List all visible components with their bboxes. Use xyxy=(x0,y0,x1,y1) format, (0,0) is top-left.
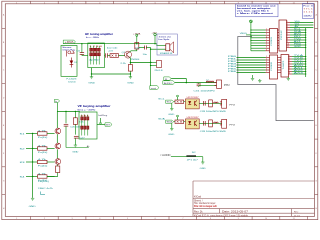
svg-text:PB6: PB6 xyxy=(228,71,236,73)
frame zone ticks left edge xyxy=(2,28,6,194)
svg-text:Fco: 3: Fco: 3 xyxy=(303,6,312,8)
resistor R SCL xyxy=(175,100,184,103)
svg-text:U2 PC817: U2 PC817 xyxy=(187,97,200,99)
transistor Q1 xyxy=(125,51,132,58)
capacitor C26 xyxy=(64,123,69,125)
svg-text:U3 PC817: U3 PC817 xyxy=(187,117,200,119)
ground GND6 under CONN1 rail xyxy=(252,75,254,78)
svg-text:2N3904: 2N3904 xyxy=(131,59,140,61)
svg-text:PIC12F: PIC12F xyxy=(281,29,283,40)
svg-text:fin = ~1MHz: fin = ~1MHz xyxy=(86,37,99,39)
PHJ1 pins xyxy=(215,82,217,84)
transistor Q2 xyxy=(55,128,61,134)
svg-text:GND: GND xyxy=(200,168,207,170)
svg-text:GND: GND xyxy=(168,114,175,116)
frame zone letters left xyxy=(3,13,5,210)
junction ground wire left xyxy=(91,73,92,74)
frame zone ticks top edge xyxy=(31,1,308,4)
svg-text:PHJ-S: PHJ-S xyxy=(155,70,164,72)
svg-text:Id: 1/1: Id: 1/1 xyxy=(294,215,301,217)
inductor SCL out xyxy=(214,102,219,103)
U4 left pin stubs xyxy=(278,58,282,73)
wire base line FL1 to C23 xyxy=(103,55,105,57)
resistor K2 xyxy=(38,147,48,150)
wire C24 to output xyxy=(146,47,150,49)
svg-text:Pu(1k): Pu(1k) xyxy=(38,137,48,139)
label arrow top left xyxy=(54,99,59,102)
IC U4 box xyxy=(281,55,289,78)
connector PHJ SDA xyxy=(222,119,227,128)
connector PHJ1 box xyxy=(217,80,222,88)
wire jumper row xyxy=(171,156,203,158)
svg-text:SPEAKER 8R: SPEAKER 8R xyxy=(160,52,173,55)
title block outline xyxy=(193,181,315,216)
inductor L2 xyxy=(206,81,214,83)
FL2 wire out xyxy=(97,124,105,126)
svg-text:KiCad E.D.A. eeschema (2013-m: KiCad E.D.A. eeschema (2013-mar-13)-stab… xyxy=(194,214,249,217)
junction ground wire right xyxy=(130,73,131,74)
capacitor SCL out xyxy=(202,101,204,106)
wire FL1 bottom to ground rail xyxy=(91,68,93,74)
+5V stem xyxy=(250,23,252,51)
svg-text:4p filter: 4p filter xyxy=(89,58,101,61)
svg-text:HF tuning amplifier: HF tuning amplifier xyxy=(85,32,114,36)
resistor R14 vertical xyxy=(56,166,60,173)
resistor R4 collector xyxy=(135,43,139,50)
svg-text:74HC1: 74HC1 xyxy=(283,59,285,69)
wire branch cap C26 xyxy=(65,112,67,124)
ground GND1 xyxy=(91,74,93,77)
frame zone numbers top xyxy=(16,2,295,4)
rail segment 2 xyxy=(56,134,58,143)
svg-text:T T L 1: T T L 1 xyxy=(303,9,314,11)
speaker symbol SP1 xyxy=(166,44,170,51)
note text box top right xyxy=(236,4,278,17)
svg-text:PHJ: PHJ xyxy=(224,85,230,87)
U4 right wires xyxy=(292,57,306,75)
right vertical bus rail xyxy=(305,28,307,77)
svg-text:lim Spkr: lim Spkr xyxy=(159,38,170,41)
row wire out K3 xyxy=(47,161,55,163)
CONN1 junctions on +5V rail xyxy=(250,29,251,41)
row wire out K4 xyxy=(47,176,55,178)
resistor R10 xyxy=(73,118,77,125)
jack symbol J1 xyxy=(68,51,71,54)
resistor vertical SCL out xyxy=(209,100,213,107)
svg-text:Stereo: Stereo xyxy=(62,46,72,49)
U1 right pin numbers xyxy=(287,21,289,48)
svg-text:Pu(1k): Pu(1k) xyxy=(38,152,48,154)
row junction K1 xyxy=(32,133,33,134)
connector CONN2 box xyxy=(270,55,278,79)
speaker output connector xyxy=(157,61,162,68)
connector CONN1 box xyxy=(270,29,278,54)
row wire out K2 xyxy=(47,148,55,150)
frequency table top right xyxy=(303,4,314,19)
transistor Q3 xyxy=(55,143,61,149)
wire opto output SDA xyxy=(199,122,222,124)
svg-text:ky: ky xyxy=(55,101,57,103)
transistor Q4 xyxy=(55,159,61,165)
power symbol +9V right xyxy=(154,33,156,35)
power symbol +5V top xyxy=(250,20,253,23)
junction IN-AUDIO xyxy=(186,82,187,83)
power label +9VA xyxy=(63,40,75,44)
Q1 collector lead xyxy=(130,49,137,52)
svg-text:GND: GND xyxy=(127,82,134,84)
svg-text:Rev:: Rev: xyxy=(294,211,299,213)
left rail for rows xyxy=(32,134,34,198)
sheet partition line xyxy=(238,37,314,121)
ground GND3 xyxy=(201,161,204,163)
FL2 contacts upper xyxy=(81,117,89,120)
keying rail vertical xyxy=(56,112,58,129)
CONN2 pin numbers xyxy=(266,56,267,73)
wire C26 to label xyxy=(66,147,89,149)
wire SDA to resistor xyxy=(174,121,175,123)
power symbol +9VA at R4 xyxy=(136,34,138,36)
svg-text:a b c: a b c xyxy=(81,115,89,117)
ground stub SDA input xyxy=(171,124,173,129)
svg-text:File: i2c-tv-keyer.sch: File: i2c-tv-keyer.sch xyxy=(194,204,217,208)
svg-text:+9VA: +9VA xyxy=(133,32,142,35)
svg-text:GND: GND xyxy=(168,134,175,136)
junction emitter node xyxy=(130,62,131,63)
svg-text:9: 9 xyxy=(266,49,267,51)
svg-text:10kHz: 10kHz xyxy=(303,16,311,18)
FL2 contacts lower xyxy=(81,126,89,129)
svg-text:4.7k: 4.7k xyxy=(38,130,46,132)
capacitor SDA out xyxy=(202,121,204,126)
rail segment 3 xyxy=(56,149,58,158)
power stub SDA xyxy=(177,117,179,120)
CONN2 left wires xyxy=(237,58,266,73)
row junction K4 xyxy=(32,176,33,177)
junction top a xyxy=(65,111,66,112)
wire into speaker box bottom xyxy=(151,48,166,50)
U1 right wires to rail xyxy=(290,30,306,48)
svg-text:10k: 10k xyxy=(135,48,140,50)
FL2 arrow label xyxy=(105,123,112,126)
coupling capacitor C24 from collector xyxy=(139,47,145,49)
capacitor C23 xyxy=(105,53,107,57)
svg-text:4.7k: 4.7k xyxy=(38,159,46,161)
svg-text:f(in) = ~40Hz: f(in) = ~40Hz xyxy=(78,110,96,112)
U1 left pin stubs xyxy=(278,30,280,48)
svg-text:SCL: SCL xyxy=(167,102,173,104)
junction speaker branch xyxy=(150,48,152,87)
connector box J1 stereo plug xyxy=(61,46,77,77)
svg-text:KiCad: KiCad xyxy=(194,195,202,199)
power stub SCL xyxy=(177,97,179,100)
svg-text:Rev: 2k: Rev: 2k xyxy=(194,210,203,213)
inductor SDA out xyxy=(214,122,219,123)
svg-text:C31 100n/NP0: C31 100n/NP0 xyxy=(194,90,216,92)
resistor K3 xyxy=(38,160,48,163)
svg-text:GN2: GN2 xyxy=(294,46,301,48)
svg-text:VF keying amplifier: VF keying amplifier xyxy=(78,104,112,108)
svg-text:GND: GND xyxy=(29,206,37,208)
frame zone ticks bottom edge xyxy=(31,216,308,219)
wire C23 to R5 xyxy=(108,55,111,57)
CONN1 left pin stubs xyxy=(266,30,270,51)
filter box FL1 xyxy=(88,43,105,68)
row wire K1 xyxy=(26,133,38,135)
wire IN xyxy=(171,79,186,83)
CONN1 pin numbers xyxy=(266,29,267,52)
row junction K2 xyxy=(32,148,33,149)
rail junctions group1 xyxy=(305,29,306,48)
svg-text:3.5mm Plug: 3.5mm Plug xyxy=(62,50,75,52)
wire output emitter to right xyxy=(130,62,150,64)
svg-text:+ More: C0Fe accent: + More: C0Fe accent xyxy=(237,12,274,15)
resistor K4 xyxy=(38,175,48,178)
opto-isolator U2 xyxy=(185,99,199,109)
svg-text:+0.6V: +0.6V xyxy=(108,50,114,52)
svg-text:GND: GND xyxy=(72,152,79,154)
IC U1 box xyxy=(279,20,287,51)
wire branch R10 xyxy=(74,112,76,118)
U4 right pin numbers xyxy=(289,55,290,75)
svg-text:4.7k: 4.7k xyxy=(38,145,46,147)
CONN2 left net labels xyxy=(228,56,236,73)
svg-text:C28 100n/NP0 SMD: C28 100n/NP0 SMD xyxy=(200,111,227,113)
row wire K4 xyxy=(26,176,38,178)
diode D1 in jack box xyxy=(70,61,74,65)
wire top horizontal xyxy=(57,111,80,113)
filter box FL2 xyxy=(79,112,97,139)
row junction K3 xyxy=(32,161,33,162)
audio arrow label xyxy=(150,86,159,90)
wire main +9VA rail xyxy=(63,43,157,45)
capacitor C22 xyxy=(81,44,83,53)
row wire K3 xyxy=(26,161,38,163)
wire resistor to opto SDA xyxy=(184,121,186,123)
frame zone ticks right edge xyxy=(315,28,318,194)
CONN2 left pin stubs xyxy=(266,58,270,73)
rail segment 4 xyxy=(56,165,58,166)
opto-isolator U3 xyxy=(185,119,199,129)
FL1 contacts upper xyxy=(90,48,101,51)
wire R6 bottom to ground rail xyxy=(129,71,131,74)
svg-text:+9V: +9V xyxy=(151,32,157,34)
FL2 wires inside xyxy=(82,115,88,136)
note bracket xyxy=(41,192,46,195)
row4 wire to R14 xyxy=(47,176,58,178)
resistor K1 xyxy=(38,132,48,135)
wire C26 down xyxy=(65,126,67,147)
svg-text:Int/Key: Int/Key xyxy=(98,114,107,117)
jumper JP1 xyxy=(186,155,196,157)
bottom ground wire xyxy=(92,73,131,75)
speaker connector box xyxy=(157,34,177,55)
svg-text:Pb(10k): Pb(10k) xyxy=(38,181,50,183)
ground GND4 xyxy=(74,144,77,146)
CONN1 left pin wires xyxy=(251,30,266,51)
svg-text:11: 11 xyxy=(287,46,289,48)
wire opto output SCL xyxy=(199,102,222,104)
svg-text:Date: 2013-05-07: Date: 2013-05-07 xyxy=(222,210,249,213)
ground GND2 xyxy=(129,74,131,77)
svg-text:4.7k: 4.7k xyxy=(38,173,46,175)
svg-text:GND: GND xyxy=(88,82,95,84)
svg-text:PHJ: PHJ xyxy=(229,105,235,107)
junction top b xyxy=(75,111,76,112)
R5 inner marks xyxy=(111,55,113,57)
junction output cap branch xyxy=(150,62,151,63)
U1 right net labels xyxy=(294,28,302,48)
top label wires to frame xyxy=(290,23,313,28)
resistor vertical SDA out xyxy=(209,120,213,127)
svg-text:AUDIO: AUDIO xyxy=(164,82,173,85)
wire connector pin2 xyxy=(199,85,217,87)
wire R4 top xyxy=(136,43,138,44)
wire into speaker box top xyxy=(157,44,166,46)
frame zone letters right xyxy=(315,13,317,210)
junction at R collector feed xyxy=(136,43,137,44)
resistor R6 emitter xyxy=(128,65,132,72)
frame zone numbers bottom xyxy=(16,218,295,220)
label IN xyxy=(164,77,171,80)
ground GND5 xyxy=(32,197,34,200)
wire R14 to row4 xyxy=(57,173,59,177)
capacitor C27 electrolytic xyxy=(74,135,79,137)
connector PHJ SCL xyxy=(222,99,227,108)
svg-text:Pu(1k): Pu(1k) xyxy=(38,166,48,168)
ground GND8 under CONN2 xyxy=(259,79,261,80)
resistor R5 xyxy=(110,54,119,58)
VBUS wire xyxy=(246,34,251,36)
svg-text:CONN2: CONN2 xyxy=(271,61,273,71)
svg-text:3.5mm: 3.5mm xyxy=(68,82,76,84)
U4 right pin stubs xyxy=(289,57,293,75)
U1 right pin stubs xyxy=(287,23,291,48)
svg-text:JP1 4k7: JP1 4k7 xyxy=(187,160,199,162)
label AUDIO xyxy=(163,81,175,85)
FL1 wires inside xyxy=(91,46,99,65)
svg-text:8: 8 xyxy=(289,73,290,75)
FL1 contacts lower xyxy=(90,53,101,56)
svg-text:PHJ: PHJ xyxy=(229,125,235,127)
svg-text:3.5mm che: 3.5mm che xyxy=(159,36,172,38)
svg-text:74HC 4x7k: 74HC 4x7k xyxy=(38,188,53,190)
svg-text:7: 7 xyxy=(266,71,267,73)
wire AUDIO to connector xyxy=(175,82,217,84)
svg-text:out: out xyxy=(151,87,157,90)
row wire out K1 xyxy=(47,133,55,135)
svg-text:< AUDIO: < AUDIO xyxy=(160,154,171,157)
junction at C22 tap xyxy=(81,43,82,44)
wire SCL to resistor xyxy=(174,101,175,103)
wire R10 to C27 xyxy=(74,124,76,134)
ground stub SCL input xyxy=(171,104,173,109)
row wire K2 xyxy=(26,148,38,150)
wire resistor to opto SCL xyxy=(184,101,186,103)
junction at +9V stub xyxy=(154,43,155,44)
U4 right net labels xyxy=(294,54,305,75)
svg-text:AX3: AX3 xyxy=(294,71,303,74)
rail junctions group2 xyxy=(305,56,306,75)
svg-text:C28 100n/NP0 SMD: C28 100n/NP0 SMD xyxy=(200,131,227,133)
wire C27 to gnd xyxy=(74,138,76,145)
svg-text:PJ-3023: PJ-3023 xyxy=(66,78,77,80)
wire Q1 emitter down xyxy=(129,57,132,64)
wire label to rail xyxy=(56,103,58,112)
FL2 out stub xyxy=(100,118,102,123)
svg-text:1 1 1 1: 1 1 1 1 xyxy=(303,11,314,13)
capacitor C31 shunt xyxy=(198,83,200,84)
ground GND7 under U4 xyxy=(287,77,289,78)
wire R5 to Q1 base xyxy=(119,55,126,57)
wire to GND3 xyxy=(202,157,204,162)
svg-text:CONN1: CONN1 xyxy=(271,36,273,46)
resistor R SDA xyxy=(175,120,184,123)
svg-text:SDA: SDA xyxy=(158,118,165,121)
